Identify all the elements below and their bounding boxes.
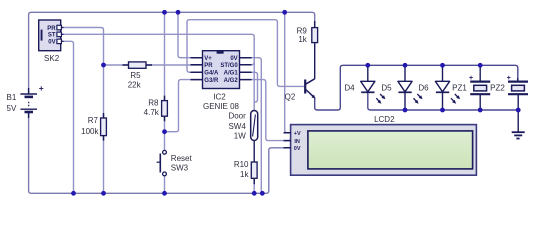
- wire: V+ top rail from battery to R9: [29, 12, 315, 93]
- svg-text:100k: 100k: [81, 127, 99, 136]
- junction node: top rail V+: [176, 10, 181, 15]
- svg-text:SW3: SW3: [171, 164, 189, 173]
- wire: SK2 PR pin to R5/R7 node: [64, 28, 104, 66]
- junction node: bottom rail SK2 0V: [71, 191, 76, 196]
- resistor R10 1k: [234, 160, 257, 193]
- svg-text:0V: 0V: [230, 56, 237, 62]
- wire: D6 anode lead: [442, 65, 444, 81]
- connector SK2: [39, 20, 64, 63]
- svg-text:D4: D4: [344, 84, 355, 93]
- svg-text:PZ1: PZ1: [452, 84, 467, 93]
- LED D4: [344, 81, 385, 103]
- svg-text:Door: Door: [228, 112, 246, 121]
- svg-text:5V: 5V: [7, 104, 17, 113]
- svg-text:1k: 1k: [298, 35, 307, 44]
- svg-text:4.7k: 4.7k: [144, 108, 160, 117]
- svg-text:A/G1: A/G1: [224, 71, 239, 77]
- wire: IC2 ST/G0 pin elbow to ST net: [252, 58, 255, 65]
- junction node: R5/R7/SK2 PR: [101, 63, 106, 68]
- junction node: LED rail D4: [365, 63, 370, 68]
- LED D5: [381, 81, 422, 103]
- svg-text:0V: 0V: [294, 146, 301, 152]
- LCD display LCD2: [284, 115, 477, 175]
- svg-text:Q2: Q2: [285, 92, 296, 101]
- svg-text:1W: 1W: [234, 132, 246, 141]
- svg-text:PR: PR: [204, 63, 213, 69]
- wire: D5 cathode lead: [404, 93, 406, 111]
- wire: D6 cathode lead: [442, 93, 444, 111]
- transistor Q2 NPN: [285, 79, 316, 102]
- wire: SK2 0V pin to bottom rail: [64, 41, 74, 193]
- svg-text:R5: R5: [130, 71, 141, 80]
- battery B1 5V: [7, 83, 44, 118]
- junction node: bottom rail R10: [252, 191, 257, 196]
- svg-text:R10: R10: [234, 160, 249, 169]
- resistor R8 4.7k: [144, 96, 168, 122]
- wire: SW3 bottom lead to rail: [164, 176, 166, 193]
- svg-text:PR: PR: [47, 26, 56, 32]
- wire: PZ2 bottom lead to ground: [517, 94, 519, 131]
- svg-text:SW4: SW4: [228, 122, 246, 131]
- junction node: bottom LED rail D5: [403, 108, 408, 113]
- svg-text:+: +: [507, 75, 511, 82]
- svg-text:0V: 0V: [48, 40, 55, 46]
- svg-text:D6: D6: [418, 84, 429, 93]
- junction node: LED rail D5: [403, 63, 408, 68]
- junction node: R8/SW3/G3R: [162, 129, 167, 134]
- wire: SW3 top lead: [164, 132, 166, 151]
- piezo sounder PZ1: [452, 75, 490, 94]
- wire: R8 branch from top rail to node: [164, 12, 166, 131]
- wire: top rail to LCD +V pin: [285, 12, 292, 132]
- svg-text:B1: B1: [7, 93, 17, 102]
- wire: LED bottom rail from D4 to ground junction: [368, 93, 518, 111]
- wire: Q2 emitter run and LED top rail to PZ2: [315, 65, 518, 110]
- svg-text:GENIE 08: GENIE 08: [203, 102, 240, 111]
- push switch SW3 Reset: [157, 150, 193, 175]
- svg-text:LCD2: LCD2: [374, 115, 395, 124]
- junction node: bottom LED rail D6: [440, 108, 445, 113]
- svg-text:D5: D5: [381, 84, 392, 93]
- svg-text:A/G2: A/G2: [224, 78, 239, 84]
- wire: PZ1 bottom lead: [479, 94, 481, 110]
- svg-text:ST: ST: [48, 33, 56, 39]
- junction node: ground junction: [516, 108, 521, 113]
- junction node: bottom rail R7: [101, 191, 106, 196]
- wire: SK2 ST pin to SW4 top: [64, 34, 255, 110]
- wire: PZ2 top lead: [517, 78, 519, 82]
- svg-text:G3/R: G3/R: [204, 78, 219, 84]
- junction node: bottom rail SW3: [162, 191, 167, 196]
- svg-text:R7: R7: [88, 116, 99, 125]
- svg-text:PZ2: PZ2: [490, 84, 505, 93]
- junction node: bottom rail IC2 0V: [260, 191, 265, 196]
- reed switch SW4 Door 1W: [228, 111, 257, 163]
- svg-text:+V: +V: [294, 131, 301, 137]
- junction node: LED rail PZ1: [478, 63, 483, 68]
- wire: IC2 A/G1 pin to SW4 net: [252, 72, 258, 102]
- svg-text:IC2: IC2: [213, 92, 226, 101]
- svg-text:22k: 22k: [128, 81, 142, 90]
- svg-text:R8: R8: [148, 98, 159, 107]
- wire: PZ1 top lead: [479, 65, 481, 81]
- wire: R5 node to IC2 PR pin: [104, 64, 203, 66]
- wire: R7 branch node to bottom rail: [103, 65, 105, 193]
- junction node: LED rail D6: [440, 63, 445, 68]
- LED D6: [418, 81, 460, 103]
- svg-text:+: +: [39, 83, 44, 93]
- wire: top rail to IC2 V+ pin: [178, 12, 203, 57]
- svg-text:IN: IN: [294, 139, 300, 145]
- junction node: top rail R8: [162, 10, 167, 15]
- wire: IC2 0V pin to bottom rail: [252, 58, 262, 194]
- svg-text:V+: V+: [204, 56, 212, 62]
- svg-text:G4/A: G4/A: [204, 71, 219, 77]
- wire: node to IC2 G3/R pin: [165, 80, 203, 132]
- piezo sounder PZ2: [490, 75, 528, 94]
- ground: [512, 132, 525, 138]
- wire: IC2 G4/A pin loop to Q2 base: [187, 20, 304, 87]
- resistor R9 1k: [297, 21, 318, 44]
- wire: D5 anode lead: [404, 65, 406, 81]
- wire: D4 anode lead: [367, 65, 369, 81]
- wire: R9 bottom to Q2 collector: [314, 43, 316, 79]
- svg-text:Reset: Reset: [171, 154, 193, 163]
- svg-text:SK2: SK2: [44, 54, 60, 63]
- resistor R5 22k: [123, 62, 153, 90]
- svg-text:+: +: [469, 75, 473, 82]
- IC IC2 GENIE 08: [191, 50, 252, 111]
- wire: 0V bottom rail from battery to LCD 0V: [29, 113, 292, 194]
- junction node: top rail LCD +V: [282, 10, 287, 15]
- wire: IC2 A/G2 pin to LCD IN: [252, 80, 293, 141]
- junction node: bottom LED rail PZ1: [478, 108, 483, 113]
- svg-text:ST/G0: ST/G0: [220, 63, 238, 69]
- resistor R7 100k: [81, 113, 106, 141]
- svg-text:1k: 1k: [240, 170, 249, 179]
